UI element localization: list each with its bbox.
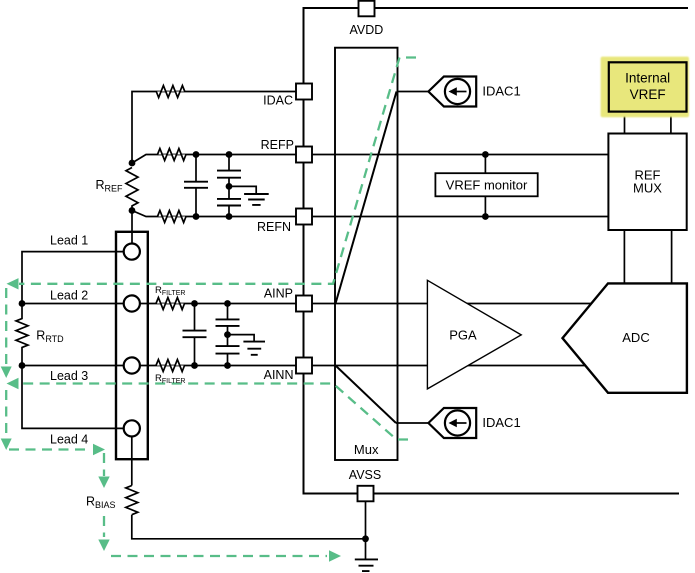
wire Internal VREF to REF MUX left xyxy=(624,112,626,134)
current source IDAC1 bottom: arrow xyxy=(454,422,467,424)
svg-text:IDAC1: IDAC1 xyxy=(482,415,520,430)
wire Lead3 external xyxy=(22,365,124,367)
resistor RREF vertical xyxy=(126,168,138,211)
capacitor series REF bottom: plates xyxy=(217,199,241,206)
wire VREF monitor to REFN line xyxy=(484,196,486,216)
ground main AVSS xyxy=(355,559,378,571)
svg-text:VREF monitor: VREF monitor xyxy=(446,178,528,193)
wire green horizontal to RBIAS column xyxy=(9,448,91,450)
wire REF MUX to ADC right xyxy=(671,230,673,283)
capacitor differential REF: bottom lead xyxy=(195,188,197,217)
capacitor series AIN top: lead xyxy=(227,304,229,320)
connector Lead 2 terminal circle xyxy=(124,295,140,311)
node AINN cap1 junction xyxy=(191,362,198,369)
svg-text:RREF: RREF xyxy=(96,178,124,194)
pin AINN square xyxy=(296,358,312,374)
resistor RFILTER top xyxy=(156,298,185,310)
wire REF cap midpoint to ground xyxy=(229,186,256,194)
wire Internal VREF to REF MUX right xyxy=(670,112,672,134)
svg-text:Lead 3: Lead 3 xyxy=(50,369,88,383)
capacitor series AIN bottom: plates xyxy=(216,346,240,354)
capacitor differential REF: top lead xyxy=(195,155,197,182)
node REFN cap2 junction xyxy=(226,213,233,220)
node REF caps midpoint xyxy=(226,183,233,190)
wire IDAC external (pin to resistor to RREF top) xyxy=(132,92,296,164)
node REFP cap1 junction xyxy=(193,151,200,158)
wire green RBIAS vertical upper xyxy=(103,453,105,476)
arrowhead green right at ground xyxy=(329,550,341,561)
wire Lead2 to AINP with RFILTER xyxy=(140,303,296,305)
ADC chip outline xyxy=(304,8,689,494)
resistor on REFP row xyxy=(158,149,187,161)
wire green left vertical lower xyxy=(5,390,7,437)
wire Mux to IDAC1 bottom xyxy=(396,422,429,424)
current source IDAC1 top: arrow xyxy=(454,91,467,93)
svg-text:Internal: Internal xyxy=(625,70,670,85)
REF MUX box xyxy=(608,134,686,231)
svg-text:Mux: Mux xyxy=(354,442,379,457)
wire REFN row external xyxy=(132,211,296,217)
ADC block pentagon xyxy=(563,283,687,392)
Mux upper diagonal switch line xyxy=(336,92,397,304)
green dashed current paths xyxy=(6,58,416,557)
capacitor series REF top: lead xyxy=(228,155,230,171)
capacitor series REF middle lead xyxy=(228,178,230,199)
svg-text:RFILTER: RFILTER xyxy=(155,373,185,385)
node Lead3 junction xyxy=(19,362,26,369)
wire green bottom horizontal to ground xyxy=(111,555,327,557)
resistor RFILTER bottom xyxy=(156,360,185,372)
resistor on IDAC line xyxy=(156,86,185,98)
wire VREF monitor to REFP line xyxy=(484,155,486,174)
wire REFN internal (pin to REF MUX) xyxy=(297,216,608,218)
wire REFP row external xyxy=(132,155,296,164)
wire green path1: IDAC1 top through mux to lead line xyxy=(19,58,416,284)
ground REF filter xyxy=(244,194,269,205)
wire REFN junction down to Lead1 xyxy=(131,211,133,244)
resistor RRTD xyxy=(16,304,28,366)
wire Lead2 external xyxy=(22,303,124,305)
svg-text:AVDD: AVDD xyxy=(349,23,383,37)
pin AVSS square xyxy=(358,486,374,502)
multiplexer Mux box xyxy=(335,48,398,460)
arrowhead green path2 left xyxy=(7,378,19,389)
capacitor differential REF: plates xyxy=(184,182,208,188)
svg-text:ADC: ADC xyxy=(622,330,649,345)
svg-text:RRTD: RRTD xyxy=(36,329,64,345)
node AINP cap1 junction xyxy=(191,300,198,307)
Internal VREF yellow highlight xyxy=(601,57,689,118)
svg-text:AVSS: AVSS xyxy=(349,468,381,482)
svg-text:IDAC: IDAC xyxy=(263,94,293,108)
arrowhead green right toward RBIAS xyxy=(93,444,105,455)
wire PGA output top to ADC xyxy=(465,303,595,305)
capacitor series REF bottom: lead xyxy=(228,206,230,217)
wire PGA output bottom to ADC xyxy=(465,365,595,367)
ground AIN filter xyxy=(243,342,265,355)
capacitor series AIN top: plates xyxy=(216,319,240,326)
svg-text:AINN: AINN xyxy=(264,368,294,382)
wire AINP internal (pin to PGA) xyxy=(297,303,427,305)
connector 4-lead body xyxy=(116,232,148,459)
capacitor differential AIN: bottom lead xyxy=(194,337,196,365)
svg-text:IDAC1: IDAC1 xyxy=(482,84,520,99)
node AINP cap2 junction xyxy=(224,300,231,307)
node REFP cap2 junction xyxy=(226,151,233,158)
arrowhead green down at corner xyxy=(1,439,12,451)
svg-text:Lead 2: Lead 2 xyxy=(50,289,88,303)
resistor RBIAS xyxy=(126,486,138,515)
pin IDAC square xyxy=(296,84,312,100)
capacitor series REF top: plates xyxy=(217,171,241,178)
Mux lower diagonal switch line xyxy=(336,366,397,424)
svg-text:MUX: MUX xyxy=(633,181,662,196)
wire REFP internal (pin to REF MUX) xyxy=(297,154,608,156)
wire Lead1 external xyxy=(22,252,124,304)
wire Lead3 to AINN with RFILTER xyxy=(140,365,296,367)
svg-text:Lead 1: Lead 1 xyxy=(50,234,88,248)
wire AVSS pin to ground xyxy=(365,502,367,560)
node VREF monitor top junction xyxy=(482,151,489,158)
wire REF MUX to ADC left xyxy=(623,230,625,283)
node RREF top junction xyxy=(129,160,136,167)
VREF monitor box xyxy=(435,173,537,196)
pin AINP square xyxy=(296,296,312,312)
capacitor differential AIN: plates xyxy=(183,331,207,338)
wire Lead3 junction down to Lead4 xyxy=(22,366,124,429)
op-amp PGA triangle xyxy=(427,280,521,389)
node AVSS ground junction xyxy=(362,535,369,542)
wire Lead4 down to RBIAS xyxy=(131,437,133,486)
node VREF monitor bottom junction xyxy=(482,213,489,220)
svg-text:REFP: REFP xyxy=(261,138,294,152)
wire AINN internal (pin to PGA) xyxy=(297,365,427,367)
connector Lead 3 terminal circle xyxy=(124,357,140,373)
svg-text:PGA: PGA xyxy=(449,328,477,343)
pin AVDD square xyxy=(359,1,375,16)
node AIN caps midpoint xyxy=(224,331,231,338)
wire green left vertical upper xyxy=(5,288,7,365)
current source IDAC1 top: pentagon body xyxy=(428,77,476,107)
svg-text:AINP: AINP xyxy=(264,287,293,301)
node REFN cap1 junction xyxy=(193,213,200,220)
arrowhead green down RBIAS upper xyxy=(98,477,109,489)
wire green RBIAS vertical lower xyxy=(103,516,105,537)
Internal VREF box xyxy=(609,62,687,111)
current source IDAC1 bottom: pentagon body xyxy=(428,408,476,438)
connector Lead 1 terminal circle xyxy=(124,244,140,260)
resistor on REFN row xyxy=(158,211,187,223)
capacitor series AIN middle lead xyxy=(227,326,229,346)
capacitor series AIN bottom: lead xyxy=(227,354,229,366)
connector Lead 4 terminal circle xyxy=(124,420,140,436)
wire RBIAS to ground junction xyxy=(132,515,366,539)
wire AIN cap midpoint to ground xyxy=(228,335,255,342)
svg-text:REFN: REFN xyxy=(257,220,291,234)
pin REFP square xyxy=(296,147,312,163)
wire green path2: IDAC1 bottom through mux to lead line xyxy=(19,384,408,440)
svg-text:RBIAS: RBIAS xyxy=(86,495,116,511)
wire Mux to IDAC1 top xyxy=(397,91,430,93)
arrowhead green path1 left xyxy=(7,278,19,289)
node AINN cap2 junction xyxy=(224,362,231,369)
node RREF bottom junction xyxy=(129,207,136,214)
capacitor differential AIN: top lead xyxy=(194,304,196,331)
arrowhead green down RBIAS lower xyxy=(98,540,109,552)
svg-text:VREF: VREF xyxy=(630,87,666,102)
pin REFN square xyxy=(296,209,312,225)
svg-text:Lead 4: Lead 4 xyxy=(50,433,88,447)
arrowhead green down above path2 xyxy=(1,367,12,379)
svg-text:RFILTER: RFILTER xyxy=(155,285,185,297)
current source IDAC1 bottom: circle xyxy=(445,410,470,435)
node Lead2 junction xyxy=(19,300,26,307)
current source IDAC1 top: circle xyxy=(445,79,470,104)
